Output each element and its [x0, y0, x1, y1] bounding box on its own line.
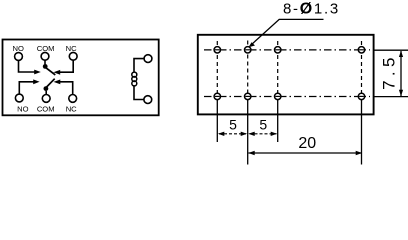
dim 20 arrow right — [356, 151, 362, 155]
svg-text:5: 5 — [259, 117, 267, 133]
hole r1c3 — [275, 47, 281, 53]
centerline col 2 — [247, 41, 249, 101]
hole r2c1 — [214, 93, 220, 99]
svg-text:NC: NC — [66, 44, 77, 53]
leader arrowhead — [249, 42, 255, 47]
dim 5 right arrow a — [248, 132, 254, 136]
wire NO bottom to arrow — [19, 82, 34, 94]
arrow NC bottom — [54, 80, 61, 85]
dim 7.5 extension top — [374, 49, 408, 51]
switch arm bottom — [47, 79, 55, 87]
centerline col 4 — [361, 41, 363, 101]
dim 7.5 line — [400, 51, 402, 96]
dim 5 line right — [250, 133, 277, 135]
hole r1c2 — [245, 47, 251, 53]
svg-text:20: 20 — [298, 135, 316, 152]
coil wire bottom — [134, 86, 144, 100]
extension line col 2 — [247, 100, 249, 165]
svg-text:NC: NC — [66, 105, 77, 114]
hole r2c4 — [358, 93, 364, 99]
pin NO top — [15, 53, 23, 61]
centerline col 3 — [277, 41, 279, 101]
pin NC top — [69, 52, 77, 60]
pin NC bottom — [69, 95, 77, 103]
switch arm top — [46, 68, 56, 75]
wire NC bottom — [60, 82, 73, 95]
centerline row bottom — [204, 96, 370, 98]
wire NO top to arrow — [19, 60, 36, 72]
svg-text:8-Ø1.3: 8-Ø1.3 — [283, 1, 340, 18]
arrow NO bottom — [33, 79, 39, 84]
coil wire top — [134, 59, 144, 72]
right outline rectangle — [198, 35, 374, 115]
coil L1 loops — [132, 72, 137, 77]
dim 5 left arrow a — [218, 132, 224, 136]
leader line 8-dia1.3 — [250, 19, 324, 46]
left schematic box — [3, 40, 159, 116]
svg-text:5: 5 — [229, 117, 237, 133]
extension line col 3 — [277, 100, 279, 142]
dim 5 line left — [219, 133, 246, 135]
wire COM top stub — [44, 60, 46, 64]
pin NO bottom — [15, 94, 23, 102]
coil pin top — [144, 55, 152, 63]
wire NC top — [60, 60, 73, 72]
hole r1c1 — [214, 47, 220, 53]
dim 20 line — [249, 152, 362, 154]
dim 7.5 arrow down — [399, 90, 403, 96]
dim 5 right arrow b — [271, 132, 277, 136]
extension line col 4 — [361, 100, 363, 165]
hole r2c2 — [245, 93, 251, 99]
node COM bottom pivot — [44, 86, 49, 91]
pin COM top — [41, 52, 49, 60]
hole r2c3 — [275, 93, 281, 99]
dim 7.5 extension bottom — [374, 96, 408, 98]
arrow NO top — [34, 70, 41, 75]
centerline row top — [204, 49, 370, 51]
extension line col 1 — [216, 100, 218, 142]
arrow NC top — [53, 70, 60, 75]
dim 5 left arrow b — [241, 132, 247, 136]
svg-text:7.5: 7.5 — [380, 53, 399, 90]
coil pin bottom — [144, 96, 152, 104]
pin COM bottom — [42, 95, 50, 103]
svg-text:COM: COM — [37, 105, 55, 114]
dim 7.5 arrow up — [399, 51, 403, 57]
wire COM bottom stub — [45, 91, 47, 95]
node COM top pivot — [43, 64, 48, 69]
hole r1c4 — [358, 47, 364, 53]
dim 20 arrow left — [248, 151, 254, 155]
svg-text:NO: NO — [17, 105, 28, 114]
centerline col 1 — [216, 41, 218, 101]
